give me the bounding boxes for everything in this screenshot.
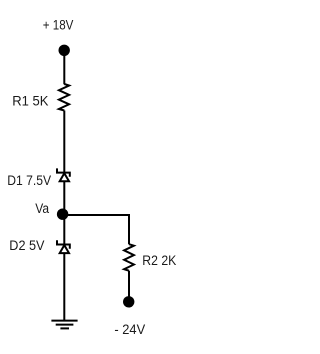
svg-text:D1 7.5V: D1 7.5V bbox=[7, 173, 51, 188]
wire from D1 to node Va bbox=[63, 181, 65, 215]
ground symbol bbox=[51, 321, 77, 329]
svg-text:- 24V: - 24V bbox=[114, 322, 145, 337]
svg-text:R2 2K: R2 2K bbox=[142, 253, 176, 268]
node Va junction dot bbox=[57, 209, 68, 220]
wire from R1 to D1 bbox=[63, 111, 65, 173]
wire from D2 to ground bbox=[63, 253, 65, 321]
zener diode D1 cathode bar bbox=[57, 168, 70, 176]
node +18V terminal dot bbox=[58, 45, 69, 56]
wire from node Va to R2 branch bbox=[64, 215, 129, 244]
svg-text:D2 5V: D2 5V bbox=[9, 238, 44, 253]
svg-text:+ 18V: + 18V bbox=[43, 18, 74, 33]
zener diode D2 cathode bar bbox=[57, 240, 70, 248]
zener diode D1 triangle bbox=[60, 173, 69, 181]
wire from node Va to D2 bbox=[63, 215, 65, 244]
svg-text:R1 5K: R1 5K bbox=[12, 93, 48, 108]
zener diode D2 triangle bbox=[60, 245, 69, 253]
wire from +18V terminal to R1 bbox=[63, 50, 65, 84]
resistor R1 bbox=[59, 84, 69, 111]
node -24V terminal dot bbox=[123, 296, 134, 307]
resistor R2 bbox=[124, 244, 134, 271]
wire from R2 to -24V terminal bbox=[128, 271, 130, 297]
svg-text:Va: Va bbox=[35, 201, 49, 216]
